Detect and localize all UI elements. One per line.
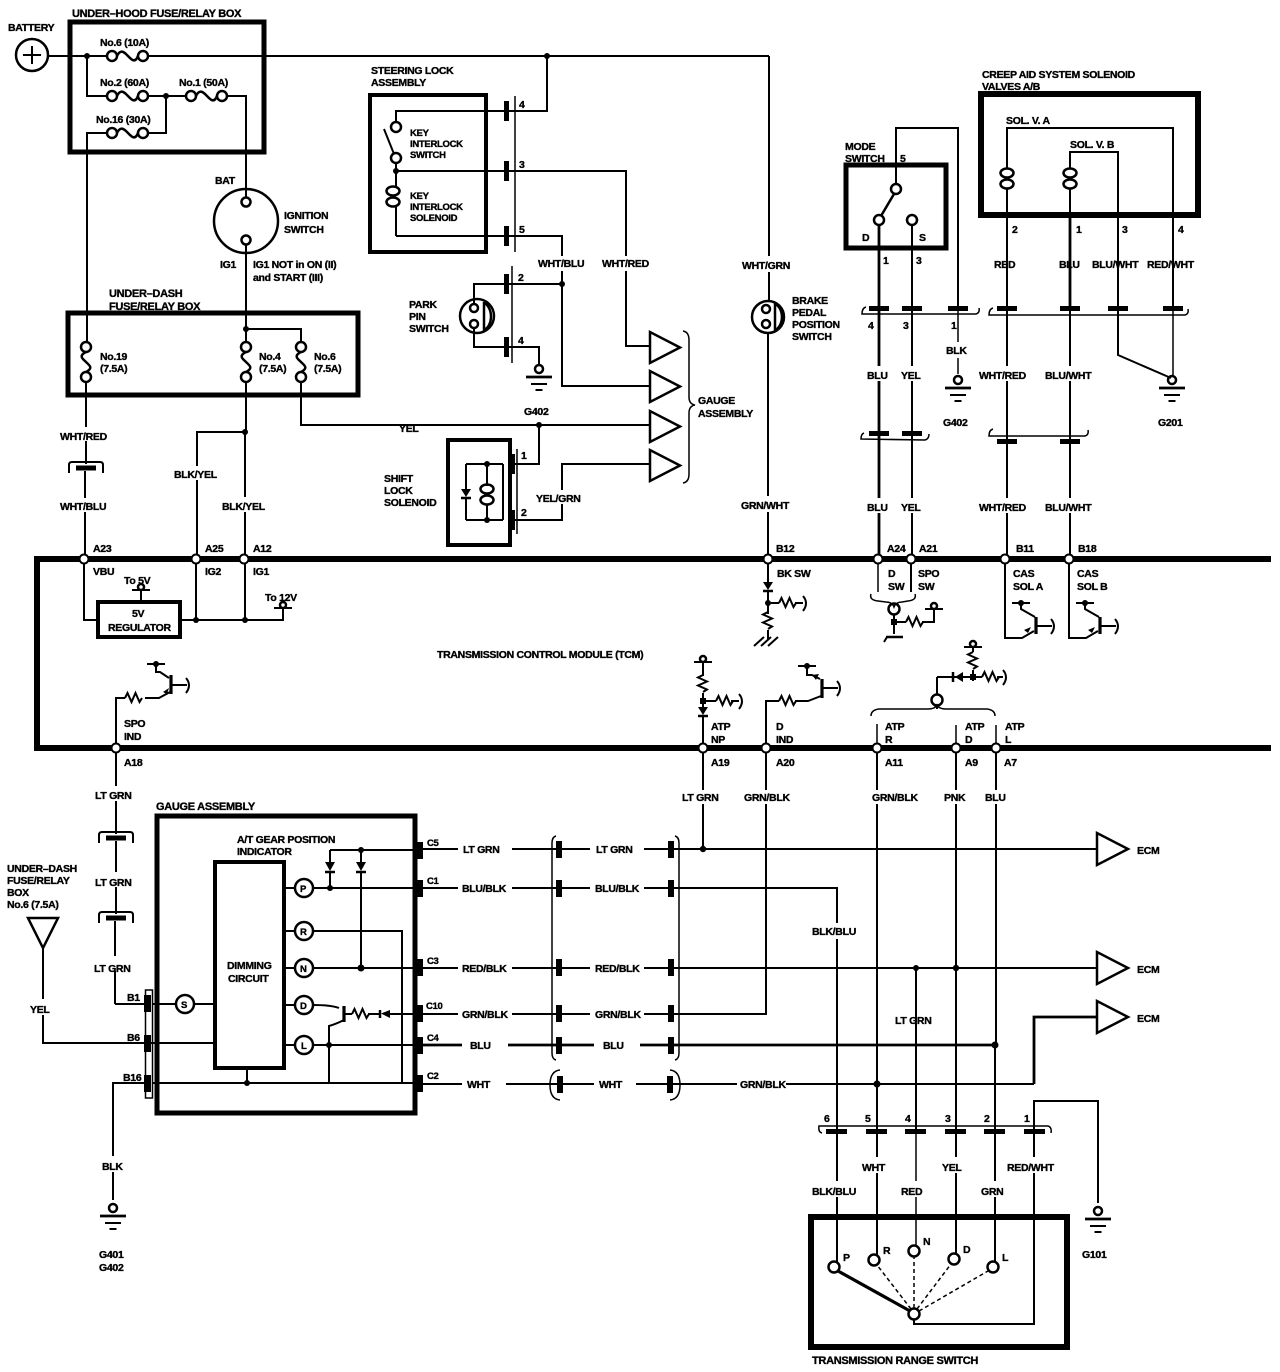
wire mode switch S to pin 3 [911,225,913,306]
gear indicator R [284,922,313,940]
gauge assembly triangle 4 [650,450,680,481]
key interlock switch [384,122,463,163]
wire battery to under-hood box [48,55,107,57]
connector row 2 right bracket [989,429,1088,444]
wire fuse No.16 right side up to junction [148,96,166,133]
svg-text:B11: B11 [1016,543,1034,555]
TCM pin B12 [764,543,811,580]
resistor D IND base [779,696,796,705]
svg-text:BRAKE: BRAKE [792,295,828,307]
ECM triangle 1 [1097,833,1160,865]
svg-text:3: 3 [519,159,525,171]
svg-text:A12: A12 [253,543,272,555]
wire A11 GRN/BLK riser [872,753,918,1084]
svg-text:PIN: PIN [409,311,426,323]
wire A19 LT GRN riser [682,753,719,849]
wire key interlock switch to pin 4 [396,111,504,122]
svg-text:SPO: SPO [124,718,145,730]
wire junction to pin 3 [396,163,504,171]
svg-text:SW: SW [918,581,935,593]
svg-text:YEL: YEL [901,502,921,514]
svg-text:BLU: BLU [603,1040,624,1052]
SPO IND transistor Q1 [145,661,189,698]
svg-text:No.19: No.19 [100,351,128,363]
svg-text:WHT/GRN: WHT/GRN [742,260,790,272]
labels mode switch pin numbers [883,255,922,267]
ATP NP pull-up circuit [694,656,742,743]
svg-text:C10: C10 [426,1001,443,1012]
svg-text:WHT: WHT [862,1162,886,1174]
node L row junction [326,1042,332,1048]
wire SPO IND to A18 [116,698,125,743]
wire N row to C3 [313,967,418,969]
svg-text:A24: A24 [887,543,906,555]
wire BLK B16 to ground [113,1083,146,1200]
fuse No.4 (7.5A) [241,342,286,382]
svg-text:BK SW: BK SW [777,568,811,580]
TCM pin A19 [699,744,730,770]
wire regulator output rail [180,608,283,620]
svg-text:RED/WHT: RED/WHT [1147,259,1195,271]
svg-text:5: 5 [519,224,525,236]
wires row 2 to TCM pins [879,436,1070,555]
wire C5 row [330,849,418,851]
svg-text:A25: A25 [205,543,224,555]
labels creep solenoid wire colors [994,259,1195,271]
wire fuse No.2 to No.1 [148,95,186,97]
svg-text:UNDER–DASH: UNDER–DASH [7,863,77,875]
5V regulator [98,602,180,637]
svg-text:A9: A9 [965,757,978,769]
svg-text:LT GRN: LT GRN [94,963,131,975]
svg-text:SW: SW [888,581,905,593]
transmission range switch box [811,1217,1067,1367]
svg-text:BLK/BLU: BLK/BLU [812,926,856,938]
resistor D driver [352,1009,369,1018]
svg-text:VALVES A/B: VALVES A/B [982,81,1041,93]
wire BLK/YEL fuse No.4 to A12 [222,382,266,555]
svg-text:FUSE/RELAY BOX: FUSE/RELAY BOX [109,301,201,313]
connector row 1 right bracket (creep solenoids) [989,306,1188,315]
svg-text:G401: G401 [99,1249,124,1261]
shift lock solenoid box [384,440,510,545]
wire GRN/WHT brake switch to TCM B12 [767,333,769,555]
svg-text:B12: B12 [776,543,795,555]
svg-text:REGULATOR: REGULATOR [108,622,172,634]
svg-text:WHT/RED: WHT/RED [979,502,1027,514]
gauge assembly box [156,801,415,1113]
svg-text:WHT: WHT [467,1079,491,1091]
svg-text:C5: C5 [427,838,440,849]
brake pedal position switch [752,295,840,343]
wire shift lock pin 1 riser [514,425,539,464]
svg-text:SWITCH: SWITCH [409,323,449,335]
wire mode switch pin 5 path [896,128,958,306]
svg-text:GRN/BLK: GRN/BLK [740,1079,786,1091]
wire WHT/RED creep pin2 down to row 2 [1006,311,1008,439]
node N diode junction [358,965,365,972]
label A/T gear position indicator [237,834,335,858]
fuse feed triangle [28,918,58,948]
wire pin 2 to WHT/BLU junction [509,283,562,285]
TCM pin A7 [992,744,1018,770]
wire P row to C1 [313,887,418,889]
svg-text:WHT: WHT [599,1079,623,1091]
node row6 junction A11 [874,1081,881,1088]
svg-text:WHT/RED: WHT/RED [979,370,1027,382]
B12 internal: zener diode [763,564,773,614]
park pin connector bracket [504,266,524,363]
wire solenoid to pin 5 [396,235,504,237]
svg-text:RED: RED [901,1186,923,1198]
svg-text:1: 1 [1076,224,1082,236]
svg-text:CAS: CAS [1077,568,1099,580]
svg-text:SOLENOID: SOLENOID [384,497,437,509]
svg-text:IG1 NOT in ON (II): IG1 NOT in ON (II) [253,259,336,271]
S circle [153,995,215,1013]
svg-text:GRN/BLK: GRN/BLK [595,1009,641,1021]
svg-text:ATP: ATP [711,721,731,733]
wire mode switch D to pin 4 [878,225,881,306]
svg-text:INTERLOCK: INTERLOCK [410,139,463,150]
svg-text:D: D [776,721,784,733]
shift lock connector bracket [510,449,527,534]
svg-text:C3: C3 [427,956,439,967]
key interlock solenoid [387,171,464,236]
svg-text:BLU/WHT: BLU/WHT [1045,502,1092,514]
node BLK/YEL branch [242,429,248,435]
svg-text:SHIFT: SHIFT [384,473,414,485]
row6 WHT/GRN-BLK wire [423,1083,1034,1085]
wire LT GRN A18 to gauge B1 [115,753,146,1004]
wire BLK/YEL branch to A25 [197,432,245,555]
labels ATP R / ATP D / ATP L [885,721,1025,746]
CAS SOL A transistor Q2 [1005,564,1054,638]
connector row 1 left bracket (mode switch) [862,306,979,314]
svg-text:L: L [1002,1252,1009,1264]
svg-text:NP: NP [711,734,725,746]
svg-text:2: 2 [518,272,524,284]
svg-text:BLU: BLU [867,502,888,514]
svg-text:PEDAL: PEDAL [792,307,827,319]
svg-text:(7.5A): (7.5A) [314,363,341,375]
svg-text:PNK: PNK [944,792,966,804]
svg-text:SOLENOID: SOLENOID [410,213,458,224]
wire fuse No.1 to ignition switch BAT [227,96,246,198]
TCM pin A24 [874,543,906,593]
row4 GRN/BLK wire to A20 [423,753,766,1014]
ground G402 (park pin switch) [524,365,552,418]
svg-text:TRANSMISSION CONTROL MODULE (T: TRANSMISSION CONTROL MODULE (TCM) [437,649,643,661]
svg-text:VBU: VBU [93,566,114,578]
wire row6 to ECM3 [1034,1017,1098,1084]
svg-text:SWITCH: SWITCH [284,224,324,236]
svg-text:B6: B6 [127,1032,140,1044]
fuse No.6 (7.5A) under-dash [296,342,341,382]
node: battery junction [84,53,90,59]
diode D1 to C5 line [325,850,335,888]
svg-text:LT GRN: LT GRN [895,1015,932,1027]
wire emitter column to B16 row [328,1026,330,1083]
svg-text:BOX: BOX [7,887,29,899]
svg-text:4: 4 [1178,224,1184,236]
node P diode junction [327,885,333,891]
svg-text:A/T GEAR POSITION: A/T GEAR POSITION [237,834,335,846]
ATP R/D/L brace [871,705,995,716]
gear indicator N [284,959,313,977]
svg-text:GRN/BLK: GRN/BLK [872,792,918,804]
To 5V tap [124,575,151,602]
svg-text:G201: G201 [1158,417,1183,429]
svg-text:4: 4 [519,99,525,111]
labels BLU YEL [867,370,1092,382]
svg-text:YEL: YEL [942,1162,962,1174]
wire pin 4 up to main feed [509,56,547,111]
svg-text:5: 5 [900,153,906,165]
labels range switch wire colors [812,1162,1055,1198]
gauge assembly triangle 2 [650,371,680,402]
TCM pin A9 [952,744,979,770]
svg-text:ATP: ATP [1005,721,1025,733]
svg-text:No.1 (50A): No.1 (50A) [179,77,228,89]
svg-text:GRN: GRN [981,1186,1003,1198]
svg-text:KEY: KEY [410,191,430,202]
svg-text:IG1: IG1 [220,259,236,271]
svg-text:YEL: YEL [399,423,419,435]
svg-text:BAT: BAT [215,175,236,187]
node BLU junction A7 [992,1042,999,1049]
svg-text:INDICATOR: INDICATOR [237,846,292,858]
wire YEL mode S down to row 2 [911,311,913,432]
range switch lever P to common [838,1271,910,1311]
inline connector A18 wire upper [99,832,133,843]
svg-text:No.6 (7.5A): No.6 (7.5A) [7,899,59,911]
wire A9 PNK riser [944,753,966,1129]
wires creep solenoid pins down to connector [1007,215,1173,306]
svg-text:BLK/BLU: BLK/BLU [812,1186,856,1198]
svg-text:GAUGE ASSEMBLY: GAUGE ASSEMBLY [156,801,256,813]
svg-text:G402: G402 [943,417,968,429]
node IG1 branch junction [243,326,249,332]
svg-text:N: N [300,964,307,975]
svg-text:POSITION: POSITION [792,319,840,331]
svg-text:3: 3 [1122,224,1128,236]
wire fuse No.6 output to right (main IG feed) [148,55,769,57]
under-dash fuse/relay box [68,288,358,395]
wire IG1 branch to fuse No.6 (7.5A) [246,329,301,342]
svg-text:RED/BLK: RED/BLK [462,963,507,975]
gauge assembly triangle 3 [650,411,680,442]
svg-text:IG2: IG2 [205,566,221,578]
svg-text:SOL. V. A: SOL. V. A [1006,115,1051,127]
ground G402 (mode switch) [943,376,971,429]
svg-text:A19: A19 [711,757,730,769]
svg-text:STEERING LOCK: STEERING LOCK [371,65,454,77]
shift lock solenoid interior: diode branch [461,464,471,520]
wire WHT/GRN main feed down to brake pedal switch [768,56,770,301]
svg-text:G402: G402 [524,406,549,418]
ground G101 [1082,1207,1111,1261]
TCM pin B18 [1065,543,1109,593]
wires range connector into switch [837,1134,995,1262]
wire RED/WHT pin1 into switch common [914,1134,1034,1324]
svg-text:CIRCUIT: CIRCUIT [228,973,269,985]
svg-text:SWITCH: SWITCH [845,153,885,165]
svg-text:D: D [965,734,973,746]
ATP R/D/L pull-up circuit [932,641,1007,709]
svg-text:ECM: ECM [1137,964,1160,976]
range switch contact N [909,1236,931,1257]
svg-text:BLK: BLK [946,345,967,357]
svg-text:GAUGE: GAUGE [698,395,735,407]
svg-text:D: D [888,568,896,580]
wire A23 WHT/RED WHT/BLU from under-dash fuse No.19 [60,382,108,555]
fuse No.2 (60A) [100,77,149,101]
CAS SOL B transistor Q3 [1069,564,1118,638]
ignition switch [214,175,336,284]
fuse No.1 (50A) [179,77,228,101]
svg-text:LT GRN: LT GRN [95,790,132,802]
svg-text:SWITCH: SWITCH [792,331,832,343]
svg-text:No.2 (60A): No.2 (60A) [100,77,149,89]
node key interlock junction [393,168,399,174]
node IG1 internal [242,617,248,623]
D IND transistor Q4 [795,663,840,701]
node YEL junction to shift lock [536,422,542,428]
svg-text:B1: B1 [127,992,140,1004]
svg-text:D: D [862,232,870,244]
svg-text:BATTERY: BATTERY [8,22,55,34]
wire pin 3 (WHT/RED) to gauge triangle 1 [509,171,650,346]
svg-text:SWITCH: SWITCH [410,150,446,161]
svg-text:A11: A11 [885,757,903,769]
fuse No.19 (7.5A) [81,342,128,382]
labels C pin numbers [426,838,443,1082]
gauge assembly bracket [683,331,695,483]
svg-text:WHT/RED: WHT/RED [60,431,108,443]
svg-text:A23: A23 [93,543,112,555]
svg-text:DIMMING: DIMMING [227,960,272,972]
dimming circuit box [215,862,284,1068]
shift lock solenoid interior: coil branch [481,464,494,520]
svg-text:IG1: IG1 [253,566,269,578]
gauge connector bracket left (B1 B6 B16) [123,990,153,1098]
range switch contact D [949,1244,972,1265]
steering lock connector bracket [504,96,525,252]
wire A12 internal stub [244,564,246,620]
range switch contact R [869,1245,892,1266]
labels wire colors rows (left of bracket) [462,844,508,1091]
svg-text:LOCK: LOCK [384,485,413,497]
svg-text:RED/BLK: RED/BLK [595,963,640,975]
svg-text:A20: A20 [776,757,795,769]
solenoid valve A [1001,115,1174,215]
wire park pin switch to pin 2 [474,284,504,304]
label ATP NP [711,721,731,746]
label D IND [776,721,794,746]
svg-text:P: P [300,884,307,895]
svg-text:BLU/WHT: BLU/WHT [1045,370,1092,382]
svg-text:GRN/WHT: GRN/WHT [741,500,790,512]
svg-text:3: 3 [945,1113,951,1125]
creep aid system solenoid valves box [981,69,1198,215]
labels wire colors rows (right of bracket) [595,844,641,1091]
svg-text:KEY: KEY [410,128,430,139]
connector row 2 left bracket [861,431,929,440]
ECM triangle 3 [1097,1001,1160,1033]
svg-text:2: 2 [1012,224,1018,236]
svg-text:5V: 5V [132,608,145,620]
node WHT/BLU junction [559,281,565,287]
gauge assembly triangle 1 [650,332,680,363]
wire BLU mode D down to row 2 [878,311,881,432]
svg-text:6: 6 [824,1113,830,1125]
svg-text:No.6 (10A): No.6 (10A) [100,37,149,49]
labels range connector pin numbers [824,1113,1030,1125]
svg-text:WHT/BLU: WHT/BLU [60,501,106,513]
fuse No.6 (10A) [100,37,149,61]
gear indicator D [284,996,313,1014]
wire BLK mode switch pin 1 to ground [946,311,967,374]
svg-text:BLU: BLU [1059,259,1080,271]
svg-text:ASSEMBLY: ASSEMBLY [698,408,753,420]
svg-text:ASSEMBLY: ASSEMBLY [371,77,426,89]
svg-text:ATP: ATP [885,721,905,733]
svg-text:BLU: BLU [470,1040,491,1052]
svg-text:GRN/BLK: GRN/BLK [462,1009,508,1021]
node fuse No.2/No.1 junction [163,93,169,99]
svg-text:G402: G402 [99,1262,124,1274]
diode D driver [368,1010,418,1018]
svg-text:MODE: MODE [845,141,876,153]
svg-text:BLU: BLU [867,370,888,382]
wire pin 5 (WHT/BLU) to gauge triangle 2 [509,236,650,386]
wire RED/WHT creep pin4 to ground G201 [1172,311,1174,375]
row5 BLU wire [423,1044,995,1047]
svg-text:C1: C1 [427,876,440,887]
svg-text:C4: C4 [427,1033,440,1044]
inline connector on A23 wire [69,462,103,473]
svg-text:4: 4 [905,1113,911,1125]
svg-text:(7.5A): (7.5A) [259,363,286,375]
wire B16 common row [153,1068,418,1086]
labels connector row 1 pin numbers [868,320,957,332]
svg-text:G101: G101 [1082,1249,1107,1261]
wire range pin5 from row6 [876,1084,878,1129]
wire fuse No.16 left side down to under-dash box [87,133,107,342]
node row3 junctions [913,965,959,971]
label SPO IND [124,718,145,743]
steering lock assembly box [370,65,486,252]
svg-text:SOL A: SOL A [1013,581,1044,593]
shift lock solenoid interior rails [466,461,503,523]
svg-text:D: D [963,1244,971,1256]
mode switch contacts [862,184,926,244]
wires ATP R D L pin risers [877,724,996,743]
mode switch box [845,141,946,248]
svg-text:WHT/BLU: WHT/BLU [538,258,584,270]
range switch common contact [909,1309,920,1320]
svg-text:5: 5 [865,1113,871,1125]
svg-text:No.4: No.4 [259,351,281,363]
row1 LT GRN wire to ECM [423,848,1097,850]
diode D2 to N row [356,847,366,968]
TCM pin A25 [192,543,224,578]
svg-text:No.16 (30A): No.16 (30A) [96,114,150,126]
resistor B12 vertical to ground [763,612,772,640]
under-hood fuse/relay box [70,8,264,152]
svg-text:2: 2 [521,507,527,519]
